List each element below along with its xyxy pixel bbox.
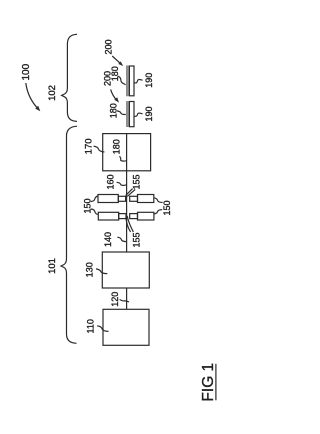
node 101 brace xyxy=(61,126,77,343)
FIG 1 underline xyxy=(215,364,217,401)
svg-text:101: 101 xyxy=(47,258,58,274)
leader squiggle 130 xyxy=(96,269,107,274)
svg-text:190: 190 xyxy=(144,106,154,121)
label 200 top xyxy=(104,39,114,54)
label 170 xyxy=(84,138,95,154)
roller 150 upper-left xyxy=(98,195,118,203)
fiber strip 180 upper (gray) xyxy=(126,66,128,96)
svg-text:102: 102 xyxy=(47,85,58,101)
leader line 155 upper b xyxy=(127,189,135,196)
fiber strip 180 lower (gray) xyxy=(126,101,128,126)
svg-text:160: 160 xyxy=(106,174,116,189)
label 180 upper plate xyxy=(110,66,120,81)
svg-text:100: 100 xyxy=(21,63,32,80)
svg-text:155: 155 xyxy=(132,174,142,189)
leader squiggle 180 upper xyxy=(118,76,126,85)
label 150 left xyxy=(83,198,93,213)
leader squiggle 140 xyxy=(117,237,126,241)
plate 190 lower xyxy=(129,102,134,127)
roller 150 upper-right xyxy=(138,195,154,203)
roller hub lower-left xyxy=(119,214,126,219)
svg-text:170: 170 xyxy=(84,138,95,154)
svg-text:110: 110 xyxy=(86,319,96,333)
node 102 brace xyxy=(62,34,77,121)
leader squiggle 110 xyxy=(97,326,108,332)
label 190 upper plate xyxy=(144,73,154,88)
label 110 xyxy=(86,319,96,333)
leader squiggle 180 in box xyxy=(120,156,127,161)
node 101 label xyxy=(47,258,58,274)
wire: leader arrow from 100 xyxy=(26,83,38,109)
svg-text:140: 140 xyxy=(103,232,113,247)
box 110 xyxy=(103,309,149,345)
node 100 label xyxy=(21,63,32,80)
svg-text:150: 150 xyxy=(162,200,172,215)
leader squiggle 180 lower xyxy=(117,111,126,115)
label 120 xyxy=(110,292,120,307)
svg-text:130: 130 xyxy=(85,262,95,277)
svg-text:180: 180 xyxy=(111,139,121,154)
roller hub upper-left xyxy=(118,196,125,201)
svg-text:200: 200 xyxy=(104,39,114,54)
label 155 upper xyxy=(132,174,142,189)
roller 150 lower-right xyxy=(138,212,154,220)
label 155 lower xyxy=(132,232,142,247)
svg-text:120: 120 xyxy=(110,292,120,307)
svg-text:200: 200 xyxy=(102,71,112,86)
svg-text:150: 150 xyxy=(83,198,93,213)
leader line 155 lower a xyxy=(126,217,131,232)
FIG 1 caption xyxy=(200,363,217,402)
leader squiggle 160 xyxy=(117,182,127,185)
label 140 xyxy=(103,232,113,247)
box 130 xyxy=(102,252,149,288)
label 150 right xyxy=(162,200,172,215)
leader arrow 200 top xyxy=(112,56,121,64)
leader squiggle 190 upper xyxy=(134,79,142,82)
leader line 155 lower b xyxy=(127,216,133,232)
roller hub upper-right xyxy=(130,196,138,201)
leader squiggle 120 xyxy=(120,300,129,303)
svg-text:180: 180 xyxy=(108,103,118,118)
node 102 label xyxy=(47,85,58,101)
svg-text:155: 155 xyxy=(132,232,142,247)
label 180 lower plate xyxy=(108,103,118,118)
label 200 lower xyxy=(102,71,112,86)
leader line 155 upper a xyxy=(126,189,133,196)
label 160 xyxy=(106,174,116,189)
box 170 (furnace) xyxy=(103,134,151,171)
svg-text:FIG 1: FIG 1 xyxy=(200,363,217,402)
label 190 lower plate xyxy=(144,106,154,121)
svg-text:190: 190 xyxy=(144,73,154,88)
wire 140 (fiber path from oven to box 130) xyxy=(126,134,128,252)
leader squiggle 150 left to upper roller xyxy=(91,196,98,202)
wire 120 xyxy=(126,288,128,309)
leader squiggle 150 left to lower roller xyxy=(91,209,98,215)
leader squiggle 150 right from lower roller xyxy=(154,210,162,214)
label 180 inside box 170 xyxy=(111,139,121,154)
label 130 xyxy=(85,262,95,277)
leader squiggle 150 right from upper roller xyxy=(154,198,163,203)
roller 150 lower-left xyxy=(98,212,118,220)
leader arrow 200 lower (curved) xyxy=(111,90,117,100)
leader squiggle 170 xyxy=(94,146,105,152)
plate 190 upper xyxy=(129,66,134,96)
leader squiggle 190 lower xyxy=(134,113,142,116)
roller hub lower-right xyxy=(130,214,138,219)
